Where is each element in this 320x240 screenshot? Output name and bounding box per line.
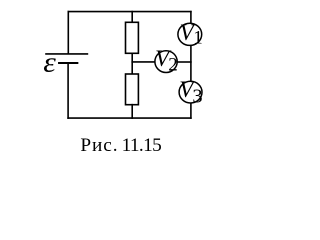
svg-text:2: 2 bbox=[168, 55, 178, 76]
resistor R1 bbox=[126, 22, 139, 53]
battery short plate bbox=[59, 62, 77, 64]
wire V1 to V3 bbox=[190, 45, 192, 81]
wire V3 to bottom bbox=[190, 103, 192, 118]
wire left lower bbox=[67, 64, 69, 118]
voltmeter V1 circle bbox=[178, 23, 202, 45]
wire between resistors bbox=[131, 53, 133, 74]
svg-text:Рис.: Рис. bbox=[80, 135, 118, 156]
battery long plate bbox=[46, 53, 87, 55]
wire top bbox=[68, 11, 191, 13]
voltmeter V2 circle bbox=[155, 51, 177, 73]
wire node to V2 bbox=[132, 61, 155, 63]
wire right to V1 bbox=[190, 12, 192, 24]
resistor R2 bbox=[126, 74, 139, 105]
wire left upper bbox=[67, 12, 69, 54]
wire bottom bbox=[68, 117, 191, 119]
svg-text:3: 3 bbox=[192, 86, 202, 108]
svg-text:1: 1 bbox=[193, 28, 203, 49]
svg-text:11.15: 11.15 bbox=[122, 135, 162, 156]
svg-text:ε: ε bbox=[43, 47, 56, 78]
voltmeter V3 circle bbox=[179, 81, 202, 103]
wire V2 to right branch bbox=[177, 61, 191, 63]
wire middle branch top bbox=[131, 12, 133, 23]
wire middle branch bottom bbox=[131, 105, 133, 118]
